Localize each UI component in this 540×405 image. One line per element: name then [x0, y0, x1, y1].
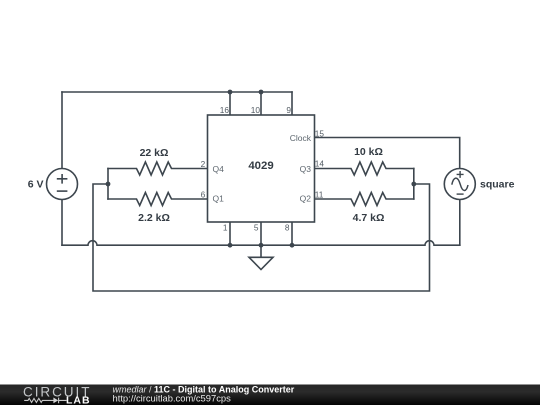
resistor R1 22 kOhm — [108, 162, 208, 175]
svg-text:Q3: Q3 — [300, 164, 312, 174]
voltage source V1 — [47, 169, 78, 200]
wire: pin 1 stub down — [229, 222, 231, 245]
resistor R2 2.2 kOhm — [108, 193, 208, 206]
svg-text:4.7 kΩ: 4.7 kΩ — [353, 212, 385, 224]
svg-text:22 kΩ: 22 kΩ — [140, 147, 169, 159]
svg-text:9: 9 — [286, 105, 291, 115]
wire: V1 positive terminal up to top rail — [61, 92, 63, 169]
resistor R3 10 kOhm — [315, 162, 414, 175]
junction dot at pin 8 on ground rail — [290, 243, 295, 248]
svg-text:Q4: Q4 — [213, 164, 225, 174]
ground symbol — [249, 245, 273, 269]
junction dot at pin 16 on top rail — [228, 90, 233, 95]
svg-text:15: 15 — [315, 128, 325, 138]
svg-text:1: 1 — [223, 223, 228, 233]
wire: right resistor pair vertical connector — [413, 169, 415, 200]
svg-text:5: 5 — [254, 223, 259, 233]
svg-text:6: 6 — [201, 189, 206, 199]
svg-text:4029: 4029 — [248, 160, 273, 172]
IC U1 4029 body — [208, 115, 315, 222]
svg-text:10: 10 — [251, 105, 261, 115]
svg-text:2.2 kΩ: 2.2 kΩ — [138, 212, 170, 224]
svg-text:11: 11 — [315, 189, 324, 199]
wire: top supply rail — [62, 91, 292, 93]
junction dot at pin 5 on ground rail — [259, 243, 264, 248]
junction dot right summing node — [411, 182, 416, 187]
wire: left resistor pair vertical connector — [107, 169, 109, 200]
junction dot at pin 1 on ground rail — [228, 243, 233, 248]
svg-text:Clock: Clock — [290, 133, 312, 143]
wire: clock line from pin 15 to square source — [315, 138, 460, 169]
square wave source V2 — [444, 169, 475, 200]
svg-text:square: square — [480, 179, 515, 191]
svg-text:10 kΩ: 10 kΩ — [354, 146, 383, 158]
svg-text:14: 14 — [315, 159, 325, 169]
svg-text:Q1: Q1 — [213, 194, 225, 204]
resistor R4 4.7 kOhm — [315, 193, 414, 206]
junction dot left summing node — [106, 182, 111, 187]
wire: square source bottom to ground rail — [459, 200, 461, 246]
footer bar — [0, 385, 540, 405]
svg-text:LAB: LAB — [66, 395, 91, 405]
wire: pin 9 stub — [291, 92, 293, 115]
logo diode triangle — [53, 398, 58, 404]
wire: pin 8 stub down — [291, 222, 293, 245]
svg-text:16: 16 — [220, 105, 230, 115]
svg-text:Q2: Q2 — [300, 194, 312, 204]
junction dot at pin 10 on top rail — [259, 90, 264, 95]
wire: ground rail with two crossover hops — [62, 241, 460, 246]
svg-text:http://circuitlab.com/c597cps: http://circuitlab.com/c597cps — [113, 392, 232, 403]
wire: summing node loop left stub and bottom rail and right stub — [93, 184, 430, 291]
wire: pin 5 stub down to ground — [260, 222, 262, 245]
svg-text:6 V: 6 V — [28, 179, 44, 191]
wire: V1 negative terminal down — [61, 200, 63, 246]
svg-text:2: 2 — [201, 159, 206, 169]
wire: pin 16 stub — [229, 92, 231, 115]
svg-text:8: 8 — [285, 223, 290, 233]
logo resistor squiggle and diode — [24, 398, 66, 404]
wire: pin 10 stub — [260, 92, 262, 115]
